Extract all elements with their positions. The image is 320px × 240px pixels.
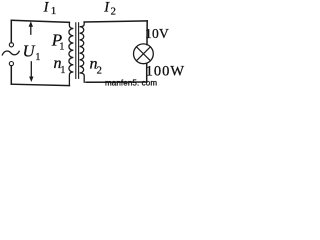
svg-text:I: I — [43, 0, 50, 16]
wire: primary left vertical lower — [10, 66, 12, 84]
lamp X diagonal 1 — [136, 47, 150, 61]
transformer primary winding n1 — [69, 22, 74, 85]
wire: lamp vertical lower — [146, 63, 148, 82]
svg-text:10V: 10V — [145, 26, 169, 41]
voltage arrow U1 up head — [29, 21, 33, 27]
transformer core line right — [78, 23, 80, 79]
wire: secondary bottom rail — [86, 81, 147, 83]
svg-text:2: 2 — [97, 65, 102, 76]
svg-text:100W: 100W — [146, 63, 185, 79]
svg-text:I: I — [103, 0, 110, 16]
svg-text:1: 1 — [51, 5, 57, 17]
wire: primary left vertical upper — [10, 20, 12, 42]
label I1 — [43, 0, 57, 17]
svg-text:U: U — [23, 42, 36, 61]
wire: secondary top rail — [84, 21, 147, 22]
voltage arrow U1 up stem — [30, 26, 32, 34]
wire: primary bottom rail — [11, 84, 69, 85]
lamp X diagonal 2 — [136, 47, 150, 61]
lamp bulb circle — [134, 44, 154, 64]
svg-text:1: 1 — [35, 52, 40, 63]
svg-text:manfen5. com: manfen5. com — [105, 78, 157, 87]
svg-text:1: 1 — [59, 41, 64, 52]
AC source terminal circle bottom — [9, 62, 13, 66]
label n1 — [54, 55, 66, 76]
wire: lamp vertical upper — [146, 21, 148, 45]
svg-text:1: 1 — [60, 65, 65, 76]
transformer core line left — [75, 23, 77, 79]
label P1 — [51, 30, 65, 52]
voltage arrow U1 down head — [29, 77, 33, 83]
voltage arrow U1 down stem — [30, 62, 32, 77]
AC source tilde symbol — [2, 51, 19, 55]
wire: primary top rail — [11, 20, 69, 22]
AC source terminal circle top — [9, 43, 13, 47]
label n2 — [90, 56, 102, 77]
label I2 — [103, 0, 116, 18]
svg-text:2: 2 — [111, 7, 116, 18]
transformer secondary winding n2 — [80, 22, 85, 82]
label U1 — [23, 42, 41, 63]
